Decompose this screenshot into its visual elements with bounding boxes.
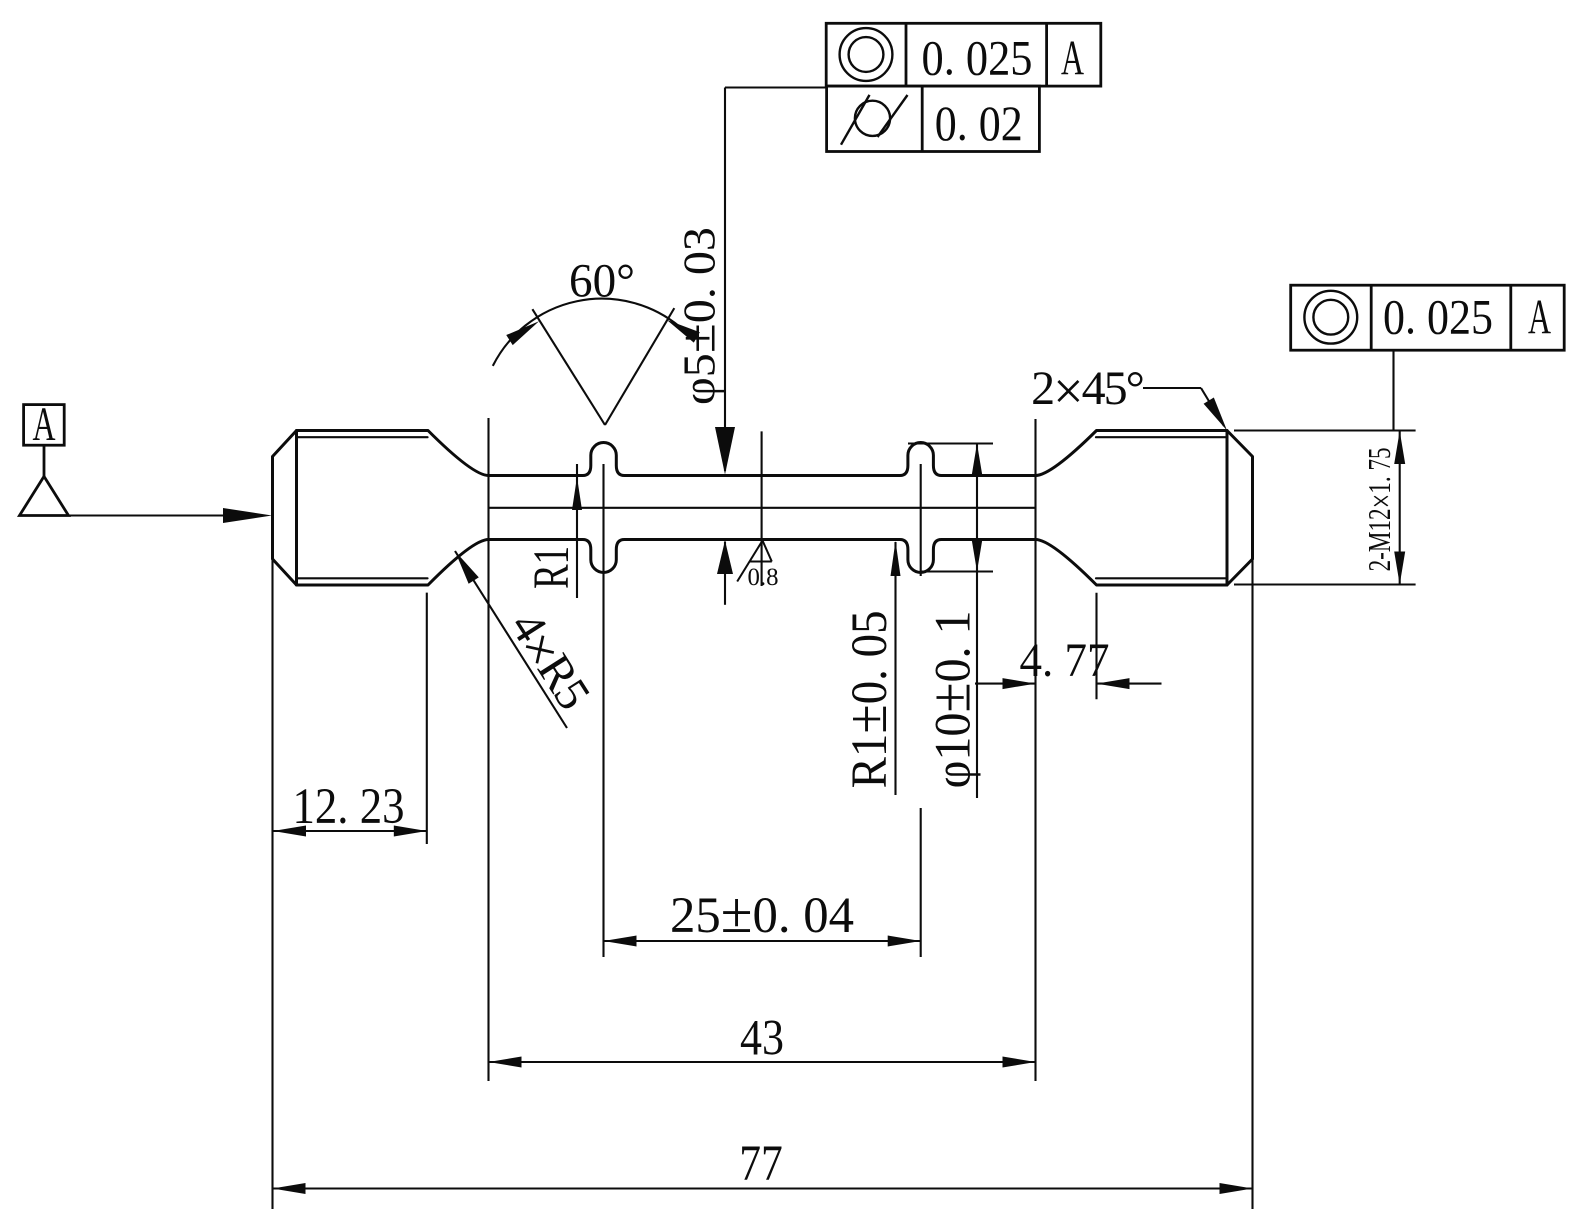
dimension M12 thread callout <box>1399 431 1401 585</box>
datum A symbol <box>20 405 241 516</box>
4xR5 fillet leader <box>455 551 567 728</box>
svg-text:φ5±0. 03: φ5±0. 03 <box>671 227 727 405</box>
25 right extension line lower <box>920 808 922 957</box>
43 right extension line <box>1034 419 1036 1081</box>
centerline axis <box>489 507 1037 509</box>
svg-text:2-M12×1. 75: 2-M12×1. 75 <box>1361 447 1401 571</box>
top feature control frame: concentricity 0.025 A <box>826 23 1101 151</box>
60 degree angle dimension <box>493 299 680 425</box>
phi10 bottom extension line <box>921 570 993 572</box>
svg-text:R1±0. 05: R1±0. 05 <box>834 610 899 788</box>
svg-text:0. 025: 0. 025 <box>922 30 1033 86</box>
svg-text:4. 77: 4. 77 <box>1020 634 1110 687</box>
svg-text:43: 43 <box>740 1011 784 1067</box>
svg-text:A: A <box>33 398 56 451</box>
svg-text:25±0. 04: 25±0. 04 <box>670 880 854 945</box>
R1 radius leader <box>576 464 578 598</box>
25 right extension line upper <box>920 464 922 576</box>
right chamfer edge line <box>1226 431 1229 586</box>
svg-text:60°: 60° <box>569 255 635 308</box>
M12 top extension line <box>1234 429 1416 431</box>
svg-text:0.8: 0.8 <box>748 564 779 591</box>
25 left extension line <box>602 464 604 957</box>
svg-text:A: A <box>1528 289 1551 345</box>
surface roughness symbol 0.8 <box>737 541 772 582</box>
svg-text:φ10±0. 1: φ10±0. 1 <box>918 610 983 788</box>
12.23 right extension line <box>426 593 428 844</box>
left chamfer edge line <box>295 431 298 586</box>
phi10 top extension line <box>908 442 993 444</box>
77 left extension line <box>271 559 273 1209</box>
2x45 chamfer leader <box>1143 388 1224 426</box>
43 left extension line <box>487 418 489 1081</box>
svg-text:A: A <box>1061 30 1084 86</box>
thread minor lines <box>297 437 1228 578</box>
dimension 43 <box>489 1061 1036 1063</box>
cylindricity symbol <box>855 101 890 136</box>
R1±0.05 radius leader <box>894 542 896 795</box>
svg-text:R1: R1 <box>524 546 580 589</box>
dimension 77 <box>273 1187 1253 1189</box>
dimension 4.77 <box>975 683 1162 685</box>
svg-text:77: 77 <box>739 1136 783 1192</box>
svg-text:2×45°: 2×45° <box>1031 361 1143 421</box>
right feature control frame: concentricity 0.025 A <box>1291 285 1565 431</box>
77 right extension line <box>1251 559 1253 1209</box>
dimension phi10±0.1 <box>976 444 978 799</box>
dimension 12.23 <box>273 830 427 832</box>
svg-text:12. 23: 12. 23 <box>293 779 405 835</box>
dimension 25±0.04 <box>604 940 921 942</box>
dimension phi5±0.03 leader from FCF <box>725 88 826 605</box>
svg-text:0. 02: 0. 02 <box>935 95 1023 151</box>
specimen outline <box>273 431 1253 586</box>
svg-text:0. 025: 0. 025 <box>1383 289 1493 345</box>
M12 bottom extension line <box>1234 583 1416 585</box>
4.77 right extension line <box>1095 593 1097 700</box>
concentricity symbol <box>840 28 893 81</box>
surface extension line through roughness symbol <box>761 431 763 586</box>
svg-text:4×R5: 4×R5 <box>495 602 601 722</box>
